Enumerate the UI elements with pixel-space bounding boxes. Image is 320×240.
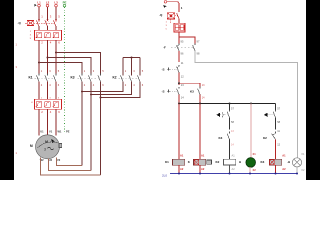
lamp H1 green xyxy=(239,152,256,174)
wire 96 down xyxy=(178,51,180,62)
svg-text:X1: X1 xyxy=(301,152,305,156)
wire motor U2 loop xyxy=(49,159,92,171)
svg-text:3: 3 xyxy=(44,147,46,151)
wire delta col2 down xyxy=(90,82,92,171)
overload relay F1 xyxy=(30,30,62,40)
junction phase3 tap xyxy=(55,52,57,54)
wire K1 to F2 pole2 xyxy=(47,82,49,100)
wire branch to 97 xyxy=(179,37,195,44)
wire tap phase2 to K3 xyxy=(48,58,92,74)
wire delta col3 down xyxy=(100,82,102,175)
wire K3 coil branch xyxy=(275,104,277,111)
coil K3 xyxy=(261,153,287,173)
lamp H2 white xyxy=(287,152,305,174)
svg-text:A1: A1 xyxy=(201,153,205,157)
overload contact 95-96 xyxy=(163,40,193,56)
junction bus K2 coil xyxy=(199,103,201,105)
wire phase3 F1 to K1 xyxy=(55,40,57,73)
svg-text:A1: A1 xyxy=(180,153,184,157)
timer contact K1 57-58 xyxy=(217,106,235,129)
svg-text:A2: A2 xyxy=(282,167,286,171)
timed contact 67-68 xyxy=(264,106,281,129)
contactor K2 star contacts xyxy=(113,57,144,87)
motor terminal labels W2 U2 V2 xyxy=(40,158,61,162)
wire terminal to Q2 xyxy=(167,2,179,12)
svg-text:X2: X2 xyxy=(301,168,305,172)
wire 95 lead xyxy=(178,37,180,44)
svg-text:U1: U1 xyxy=(40,129,44,133)
bus wire control xyxy=(179,103,276,105)
svg-text:K2: K2 xyxy=(113,76,117,80)
coil K2A white xyxy=(216,153,236,173)
wire K1 to F2 pole3 xyxy=(55,82,57,100)
svg-text:W1: W1 xyxy=(58,129,62,133)
wire stop to start xyxy=(178,76,180,85)
junction delta col1 xyxy=(81,91,83,93)
wire K2 star leg3 xyxy=(101,82,141,98)
svg-text:A2: A2 xyxy=(232,167,236,171)
right black margin bar xyxy=(306,0,320,180)
svg-text:K3: K3 xyxy=(190,90,194,94)
wire delta col1 down xyxy=(81,82,83,166)
wire timer branch top xyxy=(229,104,231,111)
node F2 top pins xyxy=(41,98,60,100)
svg-text:A2: A2 xyxy=(201,167,205,171)
svg-text:PE: PE xyxy=(66,129,70,133)
svg-text:M: M xyxy=(30,144,33,148)
svg-text:K3: K3 xyxy=(261,160,265,164)
wire K1 coil feed xyxy=(178,104,180,160)
wire K1 to F2 pole1 xyxy=(38,82,40,100)
svg-text:V1: V1 xyxy=(49,129,53,133)
wire Q1 to F1 pole1 xyxy=(38,26,40,30)
start button S2 xyxy=(162,87,180,104)
wire Q1 to F1 pole3 xyxy=(55,26,57,30)
svg-text:2L0: 2L0 xyxy=(162,174,167,178)
wire K2 star leg2 xyxy=(91,82,132,95)
svg-text:X2: X2 xyxy=(253,168,257,172)
svg-text:K1: K1 xyxy=(29,76,33,80)
control terminal X1 xyxy=(164,1,167,8)
junction bus timer branch xyxy=(229,103,231,105)
junction bus K1 coil xyxy=(178,103,180,105)
svg-text:A1: A1 xyxy=(282,153,286,157)
wire phase L1 drop xyxy=(38,7,40,20)
wire 98 to lamp H2 xyxy=(195,51,298,158)
motor terminal labels U1 V1 W1 PE xyxy=(40,129,69,133)
wire green lamp feed xyxy=(250,104,252,159)
svg-text:K1: K1 xyxy=(165,160,169,164)
terminal PE xyxy=(63,0,67,7)
wire PE dotted xyxy=(64,7,66,133)
svg-text:L3: L3 xyxy=(54,0,58,4)
left black margin bar xyxy=(0,0,14,180)
wire Q2 to F3 xyxy=(178,19,180,24)
junction phase2 tap xyxy=(47,57,49,59)
svg-text:K3: K3 xyxy=(219,136,223,140)
svg-text:K3: K3 xyxy=(71,76,75,80)
junction delta col3 xyxy=(100,97,102,99)
aux contact K1 xyxy=(190,84,205,104)
svg-text:L2: L2 xyxy=(46,0,50,4)
wire phase2 F1 to K1 xyxy=(47,40,49,73)
wire motor V2 loop xyxy=(41,158,101,176)
svg-text:-S: -S xyxy=(162,90,165,94)
wire Q1 to F1 pole2 xyxy=(47,26,49,30)
wire branch to K1 aux xyxy=(179,83,200,86)
svg-text:K2: K2 xyxy=(216,160,220,164)
wire K2 coil feed xyxy=(199,104,201,160)
svg-text:-F: -F xyxy=(163,46,166,50)
terminal L2 xyxy=(46,0,50,7)
overload element F3 xyxy=(166,20,185,32)
svg-text:X1: X1 xyxy=(253,152,257,156)
stop button S1 xyxy=(162,65,180,76)
contactor K1 main contacts xyxy=(29,69,60,87)
wire F3 down xyxy=(178,32,180,37)
overload relay F2 xyxy=(31,99,62,114)
svg-text:U2: U2 xyxy=(49,158,53,162)
wire phase L3 drop xyxy=(55,7,57,20)
interlock contact K2 11-12 xyxy=(263,129,281,159)
svg-text:A2: A2 xyxy=(180,167,184,171)
wire phase L2 drop xyxy=(47,7,49,20)
wire K2 star leg1 xyxy=(82,82,123,92)
wire phase1 F1 to K1 xyxy=(38,40,40,73)
junction delta col2 xyxy=(90,94,92,96)
overload contact 97-98 xyxy=(193,40,200,56)
breaker Q2 xyxy=(159,13,179,19)
junction start branch xyxy=(178,82,180,84)
motor M1 xyxy=(30,135,62,159)
wire tap phase3 to K3 xyxy=(56,53,101,74)
wire F2 to motor V1 xyxy=(47,109,49,135)
svg-text:A1: A1 xyxy=(232,153,236,157)
wire F2 to motor W1 xyxy=(55,109,57,135)
aux contact K3 13-14 xyxy=(219,130,235,159)
wire motor W2 loop xyxy=(57,158,83,166)
coil K2 with timer xyxy=(188,153,212,173)
junction phase1 tap xyxy=(38,62,40,64)
svg-text:PE: PE xyxy=(63,0,67,4)
svg-text:-S: -S xyxy=(162,68,165,72)
wire F2 to motor U1 xyxy=(38,109,40,135)
svg-text:L1: L1 xyxy=(37,0,41,4)
coil K1 xyxy=(165,153,185,173)
neutral wire 2L0 xyxy=(162,173,298,178)
svg-text:-H: -H xyxy=(287,160,290,164)
terminal L1 xyxy=(34,0,41,7)
svg-text:K2: K2 xyxy=(263,136,267,140)
svg-text:H: H xyxy=(239,160,241,164)
contactor K3 delta contacts xyxy=(71,69,105,87)
breaker Q1 xyxy=(18,20,58,27)
svg-text:V2: V2 xyxy=(57,158,61,162)
terminal L3 xyxy=(54,0,58,7)
wire tap phase1 to K3 xyxy=(39,63,82,74)
junction bus lamp branch xyxy=(250,103,252,105)
